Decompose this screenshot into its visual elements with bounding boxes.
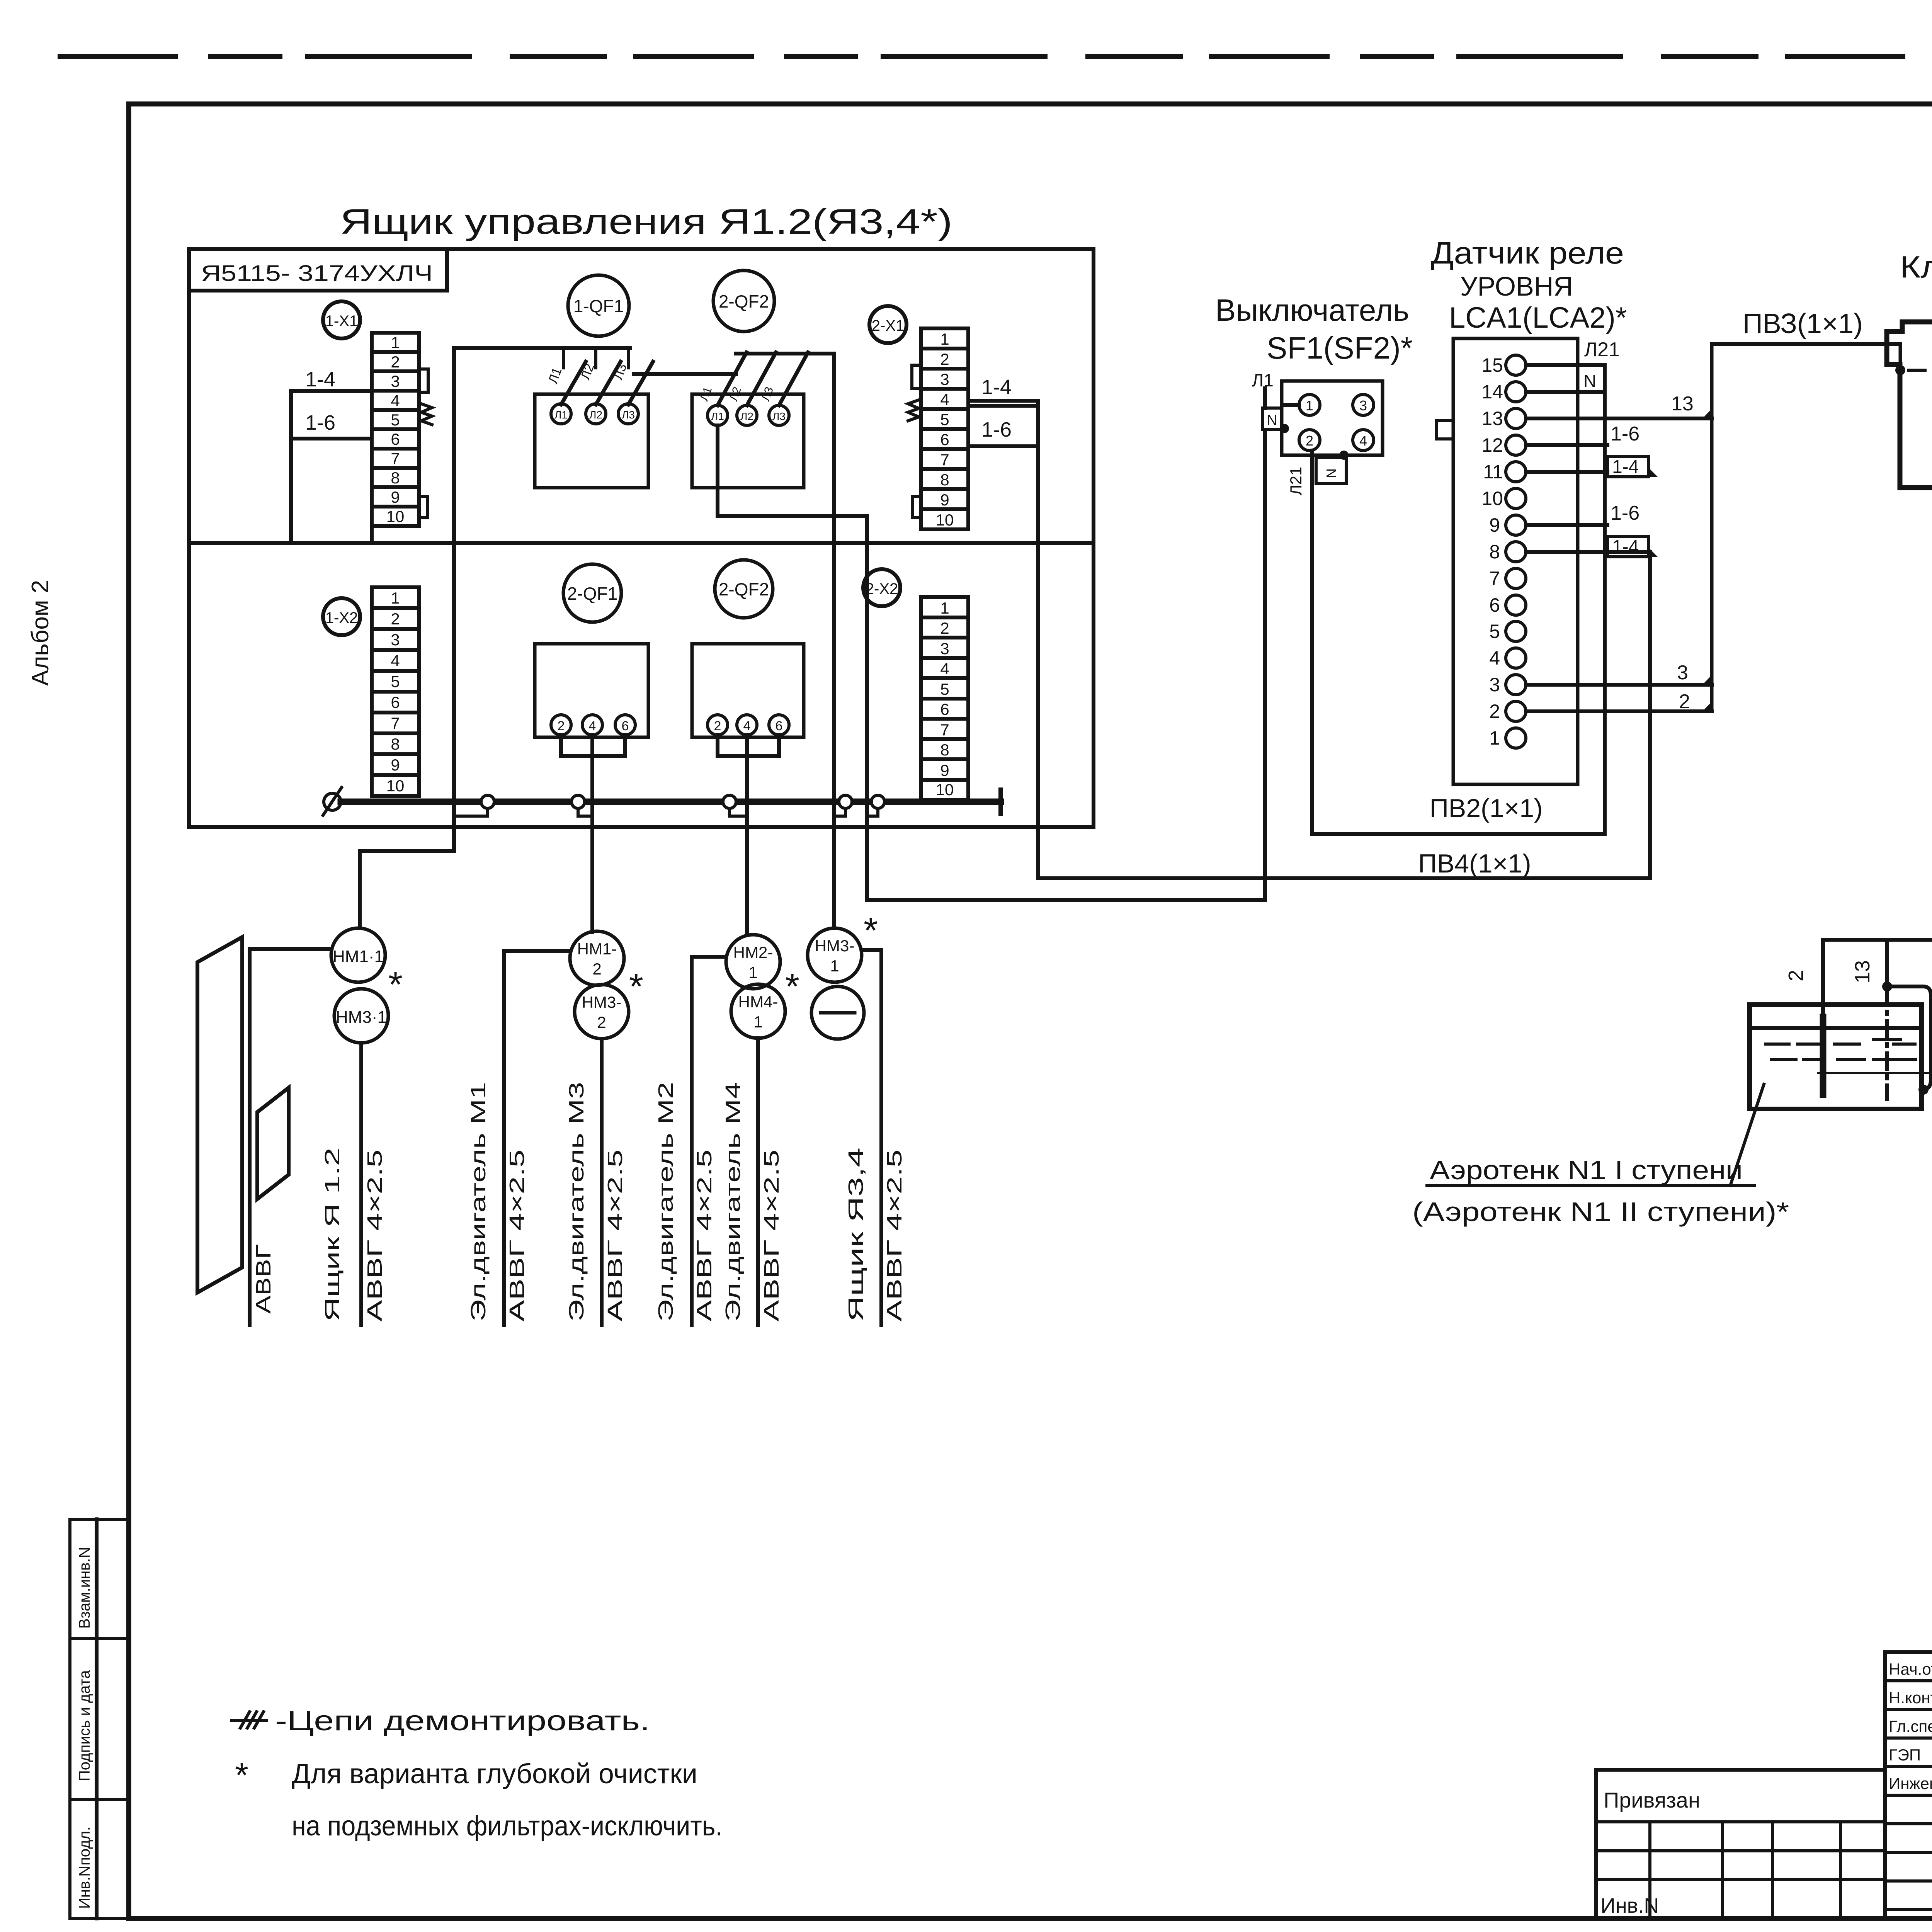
svg-text:6: 6 xyxy=(940,430,949,449)
svg-text:3: 3 xyxy=(940,639,949,658)
bracket wire left of НМ2-1 xyxy=(692,955,726,959)
wire 2-QF2.Л1 output run xyxy=(718,425,1265,900)
SF1 pin 1 xyxy=(1299,395,1320,415)
tank1 cable branch xyxy=(1823,938,1932,942)
svg-text:Л21: Л21 xyxy=(1287,467,1305,495)
control box section divider xyxy=(189,541,1094,545)
cable ПВ3 riser xyxy=(1710,344,1714,711)
svg-text:Гл.спец.: Гл.спец. xyxy=(1889,1717,1932,1735)
2-QF1 terminal 6 xyxy=(615,715,635,735)
terminal block 1-X2 designator circle xyxy=(323,598,360,635)
svg-text:2: 2 xyxy=(391,353,400,371)
cable line Эл.двигатель М1 xyxy=(502,951,506,1325)
svg-text:2-QF2: 2-QF2 xyxy=(719,579,769,599)
svg-text:Н.контр: Н.контр xyxy=(1889,1689,1932,1707)
svg-text:2: 2 xyxy=(391,610,400,628)
svg-text:8: 8 xyxy=(391,735,400,753)
svg-text:8: 8 xyxy=(940,741,949,759)
PE bus xyxy=(341,799,1001,805)
2-QF2 lower terminal 2 xyxy=(707,715,728,735)
feed bus above 1-QF1 xyxy=(454,346,630,350)
svg-text:Клеммная коробка: Клеммная коробка xyxy=(1900,250,1932,284)
flag box 1-4 on wire 11 xyxy=(1607,456,1648,477)
SF1 pin 4 xyxy=(1353,430,1374,451)
svg-text:7: 7 xyxy=(1489,568,1500,589)
svg-text:НМ3-: НМ3- xyxy=(815,937,855,955)
tank1 water line xyxy=(1750,1026,1922,1030)
wire terminal 13 xyxy=(1526,417,1712,420)
wire to НМ1-1 xyxy=(360,851,454,928)
svg-text:5: 5 xyxy=(391,411,400,429)
svg-text:2-X2: 2-X2 xyxy=(866,580,898,597)
motor НМ4-1 paired xyxy=(731,984,785,1038)
2-QF2 terminal Л1 xyxy=(707,405,728,425)
svg-text:10: 10 xyxy=(936,511,954,529)
switch SF1 box xyxy=(1282,381,1383,455)
svg-text:*: * xyxy=(235,1756,248,1795)
svg-text:Инжен.: Инжен. xyxy=(1889,1774,1932,1793)
svg-text:15: 15 xyxy=(1481,354,1503,376)
1-QF1 switch blades xyxy=(561,362,653,405)
svg-text:2: 2 xyxy=(940,619,949,637)
control box outline xyxy=(189,249,1094,827)
svg-text:N: N xyxy=(1323,468,1339,478)
svg-text:1-4: 1-4 xyxy=(305,368,335,391)
junction dot on N wire xyxy=(1280,424,1289,433)
SF1 pin 3 xyxy=(1353,395,1374,415)
breaker box 2-QF1 lower xyxy=(535,644,648,737)
svg-text:5: 5 xyxy=(940,410,949,429)
reserve circle with dash xyxy=(811,986,864,1039)
svg-text:1: 1 xyxy=(1306,398,1313,413)
2-X1 side tabs xyxy=(912,365,921,518)
wire terminal 3 xyxy=(1526,683,1712,687)
sensor terminal numbers xyxy=(1481,354,1503,749)
svg-text:Альбом 2: Альбом 2 xyxy=(27,580,54,686)
svg-text:13: 13 xyxy=(1851,960,1874,983)
cable ПВ2 wire xyxy=(1312,832,1605,836)
1-X1 zigzag contact xyxy=(421,404,432,425)
svg-text:2: 2 xyxy=(597,1013,606,1031)
bus tap circle 1 xyxy=(481,795,494,808)
svg-text:НМ2-: НМ2- xyxy=(733,943,773,961)
svg-text:3: 3 xyxy=(940,370,949,388)
svg-text:7: 7 xyxy=(391,449,400,468)
legend strike symbol xyxy=(232,1719,267,1722)
svg-text:1: 1 xyxy=(830,957,839,975)
level sensor box LCA1 xyxy=(1453,338,1578,784)
svg-text:*: * xyxy=(785,966,799,1007)
svg-text:2: 2 xyxy=(558,719,565,733)
svg-text:Л1: Л1 xyxy=(711,410,724,422)
svg-text:10: 10 xyxy=(1481,488,1503,509)
svg-text:3: 3 xyxy=(1489,674,1500,696)
type label box Я5115-3174УХЛЧ xyxy=(189,249,447,291)
svg-text:4: 4 xyxy=(1489,647,1500,669)
top dashed border line xyxy=(60,54,1932,59)
sensor terminal circles 15..1 xyxy=(1506,355,1526,375)
svg-text:10: 10 xyxy=(386,777,405,795)
svg-text:1: 1 xyxy=(748,963,757,981)
svg-text:Подпись и дата: Подпись и дата xyxy=(76,1670,93,1781)
tank1 electrode 2 wire xyxy=(1821,940,1825,1017)
svg-text:9: 9 xyxy=(391,488,400,506)
breaker designator circle 2-QF1 lower xyxy=(563,564,621,622)
svg-text:Эл.двигатель М3: Эл.двигатель М3 xyxy=(565,1082,588,1321)
terminal box КК1 outline xyxy=(1887,322,1932,501)
svg-text:10: 10 xyxy=(386,507,405,526)
svg-text:1-X1: 1-X1 xyxy=(325,313,358,330)
terminal strip 2-X2 xyxy=(921,597,968,800)
svg-text:Инв.N: Инв.N xyxy=(1600,1894,1659,1917)
motor НМ3-1 second xyxy=(808,928,862,982)
svg-text:ПВ4(1×1): ПВ4(1×1) xyxy=(1418,849,1531,878)
svg-text:2: 2 xyxy=(714,719,721,733)
svg-text:Ящик Я 1.2: Ящик Я 1.2 xyxy=(321,1148,344,1321)
svg-text:Для варианта глубокой очистки: Для варианта глубокой очистки xyxy=(292,1759,697,1789)
2-QF2 feed bus xyxy=(736,352,834,355)
svg-text:2-QF1: 2-QF1 xyxy=(567,583,617,604)
phase taps above 1-QF1 xyxy=(563,348,628,368)
2-QF1 центр wire down to motor НМ1-2 xyxy=(590,735,594,932)
svg-text:АВВГ 4×2.5: АВВГ 4×2.5 xyxy=(505,1150,529,1321)
svg-text:Я5115- 3174УХЛЧ: Я5115- 3174УХЛЧ xyxy=(201,261,433,286)
svg-text:N: N xyxy=(1267,412,1277,429)
tank1 electrode 2 rod xyxy=(1820,1017,1827,1095)
svg-text:-Цепи демонтировать.: -Цепи демонтировать. xyxy=(275,1706,650,1736)
aeration tank 1 xyxy=(1750,1005,1922,1109)
svg-text:Эл.двигатель М2: Эл.двигатель М2 xyxy=(654,1082,677,1321)
1-X1 side tabs xyxy=(419,369,428,518)
svg-text:1-6: 1-6 xyxy=(1611,423,1639,445)
stamp box Взам.инв.№ xyxy=(70,1519,129,1638)
2-QF1 terminal 4 xyxy=(582,715,602,735)
svg-text:Выключатель: Выключатель xyxy=(1215,293,1409,327)
svg-text:2: 2 xyxy=(592,960,601,978)
svg-text:АВВГ 4×2.5: АВВГ 4×2.5 xyxy=(693,1150,716,1321)
wire terminal 8 xyxy=(1526,550,1650,554)
terminal strip 1-X1 xyxy=(372,333,419,526)
svg-text:1-QF1: 1-QF1 xyxy=(573,296,624,316)
svg-text:Эл.двигатель М4: Эл.двигатель М4 xyxy=(721,1082,745,1321)
svg-text:НМ3·1: НМ3·1 xyxy=(336,1008,387,1027)
svg-text:N: N xyxy=(1583,371,1596,391)
svg-text:9: 9 xyxy=(940,491,949,509)
stamp box Инв.№подл. xyxy=(70,1799,129,1918)
svg-text:4: 4 xyxy=(391,391,400,410)
svg-text:АВВГ: АВВГ xyxy=(252,1244,275,1314)
PE dash-dot link xyxy=(1909,369,1932,372)
bracket wire left of НМ1-1 xyxy=(250,947,331,951)
svg-text:1-X2: 1-X2 xyxy=(325,609,358,626)
ПВ3 entry wire down КК1 left side xyxy=(1899,344,1902,488)
svg-text:Аэротенк N1 I ступени: Аэротенк N1 I ступени xyxy=(1430,1155,1743,1185)
wire terminal 8 down to ПВ4 xyxy=(1648,552,1652,878)
wire Л1 into N box xyxy=(1263,388,1267,408)
svg-text:6: 6 xyxy=(1489,594,1500,616)
junction dot under pin 4 xyxy=(1339,451,1349,460)
1-QF1 terminal Л3 xyxy=(618,404,638,424)
terminal strip 1-X2 xyxy=(372,587,419,796)
svg-text:11: 11 xyxy=(1483,461,1503,483)
breaker box 1-QF1 xyxy=(535,394,648,488)
wire terminal 14 to N xyxy=(1526,390,1605,394)
svg-text:АВВГ 4×2.5: АВВГ 4×2.5 xyxy=(604,1150,627,1321)
svg-text:*: * xyxy=(629,966,643,1007)
svg-text:Л2: Л2 xyxy=(589,409,602,421)
svg-text:5: 5 xyxy=(940,680,949,698)
tank1 water dashes xyxy=(1766,1044,1916,1060)
svg-text:Л21: Л21 xyxy=(1584,338,1620,361)
svg-text:Датчик реле: Датчик реле xyxy=(1431,236,1624,270)
bus tap circle 5 xyxy=(871,795,884,808)
svg-text:8: 8 xyxy=(940,471,949,489)
2-X1 zigzag contact xyxy=(908,400,919,421)
breaker box 2-QF2 xyxy=(692,394,804,488)
svg-text:ГЭП: ГЭП xyxy=(1889,1746,1921,1764)
svg-text:Эл.двигатель М1: Эл.двигатель М1 xyxy=(467,1082,490,1321)
svg-text:1: 1 xyxy=(391,589,400,607)
svg-text:9: 9 xyxy=(940,761,949,779)
bus tap circle 2 xyxy=(571,795,585,808)
2-QF2 switch blades xyxy=(718,352,808,405)
terminal block 2-X1 designator circle xyxy=(869,306,906,343)
cable tray parallelogram tall xyxy=(197,937,242,1293)
svg-text:1-4: 1-4 xyxy=(981,376,1012,399)
svg-text:4: 4 xyxy=(391,651,400,670)
wire terminal 2 xyxy=(1526,709,1712,713)
breaker designator circle 2-QF2 xyxy=(713,270,774,332)
terminal strip 2-X1 xyxy=(921,328,968,529)
flag box 1-4 on wire 8 xyxy=(1607,536,1648,557)
svg-text:4: 4 xyxy=(743,719,751,733)
svg-text:4: 4 xyxy=(589,719,596,733)
svg-text:1-6: 1-6 xyxy=(981,418,1012,441)
svg-text:5: 5 xyxy=(1489,621,1500,642)
svg-text:5: 5 xyxy=(391,672,400,690)
svg-text:4: 4 xyxy=(1359,433,1367,449)
PE bus end bar xyxy=(998,790,1003,814)
tab at terminal 13 xyxy=(1437,420,1453,439)
motor НМ3-2 paired xyxy=(575,985,629,1039)
wire from 2-X1 terminal 4 xyxy=(968,399,1038,403)
svg-text:Взам.инв.N: Взам.инв.N xyxy=(76,1547,93,1629)
motor НМ1-2 xyxy=(570,931,624,985)
bus tap circle 3 xyxy=(723,795,736,808)
cable tray parallelogram small xyxy=(257,1088,289,1199)
svg-text:Нач.отд: Нач.отд xyxy=(1889,1660,1932,1678)
cable line Ящик Я3,4 xyxy=(879,950,883,1325)
tank1 electrode 13 rod dash-dot xyxy=(1885,989,1889,1099)
cable ПВ4 wire xyxy=(1038,876,1650,880)
svg-text:1: 1 xyxy=(1489,727,1500,749)
svg-text:Л3: Л3 xyxy=(772,410,786,422)
cable line Эл.двигатель М3 xyxy=(600,1039,604,1325)
svg-text:ПВ2(1×1): ПВ2(1×1) xyxy=(1430,794,1543,823)
SF1 pin 2 xyxy=(1299,430,1320,451)
1-QF1 terminal Л1 xyxy=(551,404,571,424)
svg-text:2: 2 xyxy=(940,350,949,368)
flag triangle on wire 3 xyxy=(1702,675,1712,685)
svg-text:Л1: Л1 xyxy=(1252,370,1274,390)
svg-text:13: 13 xyxy=(1481,408,1503,429)
terminal block 2-X2 designator circle xyxy=(863,569,900,606)
svg-text:1-4: 1-4 xyxy=(1612,537,1639,557)
bus tap circle 4 xyxy=(839,795,852,808)
svg-text:НМ1·1: НМ1·1 xyxy=(333,947,384,966)
svg-text:2: 2 xyxy=(1489,701,1500,722)
svg-text:Привязан: Привязан xyxy=(1604,1788,1700,1812)
svg-text:1-6: 1-6 xyxy=(1611,502,1639,524)
svg-text:2-X1: 2-X1 xyxy=(872,317,905,334)
junction dot 13 tank1 xyxy=(1882,981,1892,992)
cable line Эл.двигатель М4 xyxy=(756,1038,760,1325)
svg-text:3: 3 xyxy=(1359,398,1367,413)
svg-text:1: 1 xyxy=(940,330,949,348)
svg-text:4: 4 xyxy=(940,660,949,678)
svg-text:2: 2 xyxy=(1679,690,1690,713)
wire 2-QF2 feed down to НМ3-1 group xyxy=(832,354,836,928)
svg-text:Ящик Я3,4: Ящик Я3,4 xyxy=(844,1148,867,1321)
breaker designator circle 1-QF1 xyxy=(568,275,629,336)
tank1 electrode tick marks xyxy=(1874,1039,1901,1060)
1-QF1 terminal Л2 xyxy=(586,404,606,424)
svg-text:Инв.Nподл.: Инв.Nподл. xyxy=(76,1827,93,1909)
svg-text:6: 6 xyxy=(940,700,949,718)
svg-text:Л1: Л1 xyxy=(554,409,568,421)
motor НМ2-1 xyxy=(726,935,780,989)
svg-text:(Аэротенк N1 II ступени)*: (Аэротенк N1 II ступени)* xyxy=(1412,1197,1789,1227)
svg-text:2-QF2: 2-QF2 xyxy=(719,291,769,311)
svg-text:7: 7 xyxy=(391,714,400,732)
2-QF1 terminal 2 xyxy=(551,715,571,735)
bracket wire left of НМ1-2 xyxy=(504,949,570,953)
svg-text:3: 3 xyxy=(391,631,400,649)
svg-text:НМ1-: НМ1- xyxy=(577,940,617,958)
motor НМ1-1 xyxy=(331,928,385,982)
svg-text:12: 12 xyxy=(1481,434,1503,456)
flag triangle on wire 13 xyxy=(1702,409,1712,418)
binding table Привязан xyxy=(1596,1770,1885,1918)
1-6 box right of 2-X1 xyxy=(968,406,1038,446)
SF1 neutral wire down xyxy=(1263,430,1267,900)
svg-text:1-4: 1-4 xyxy=(1612,457,1639,477)
tank1 electrode 13 wire xyxy=(1885,940,1889,986)
2-QF2 terminal Л3 xyxy=(769,405,789,425)
wire terminal 15 to Л21 xyxy=(1526,363,1605,367)
wire terminal 12 xyxy=(1526,443,1607,447)
svg-text:АВВГ 4×2.5: АВВГ 4×2.5 xyxy=(363,1150,386,1321)
svg-text:2: 2 xyxy=(1306,433,1313,449)
svg-text:6: 6 xyxy=(391,693,400,711)
svg-text:Л2: Л2 xyxy=(740,410,753,422)
link wire between breaker feeds xyxy=(634,372,736,376)
svg-text:НМ3-: НМ3- xyxy=(582,993,622,1011)
tank1 leader line xyxy=(1730,1084,1764,1185)
svg-text:ПВЗ(1×1): ПВЗ(1×1) xyxy=(1743,308,1863,339)
wire pin1 to N xyxy=(1282,403,1299,407)
svg-text:13: 13 xyxy=(1671,393,1694,415)
svg-text:АВВГ 4×2.5: АВВГ 4×2.5 xyxy=(760,1150,783,1321)
motor НМ3-1 paired xyxy=(334,989,388,1043)
svg-text:9: 9 xyxy=(391,756,400,774)
svg-text:3: 3 xyxy=(1677,662,1688,684)
wire 1-6 down to ПВ4 xyxy=(1036,401,1040,878)
svg-text:7: 7 xyxy=(940,451,949,469)
2-QF2 lower terminal 4 xyxy=(737,715,757,735)
svg-text:8: 8 xyxy=(391,469,400,487)
2-QF2 lower output jumper xyxy=(718,735,779,756)
svg-text:6: 6 xyxy=(391,430,400,448)
2-QF1 output jumper xyxy=(561,735,625,756)
cable line Эл.двигатель М2 xyxy=(690,957,694,1325)
N box under SF1 xyxy=(1316,457,1346,483)
svg-text:SF1(SF2)*: SF1(SF2)* xyxy=(1267,331,1413,365)
svg-text:1: 1 xyxy=(940,599,949,617)
svg-text:на подземных фильтрах-исключит: на подземных фильтрах-исключить. xyxy=(292,1811,723,1842)
svg-text:3: 3 xyxy=(391,372,400,390)
signature table xyxy=(1885,1652,1932,1918)
wire terminal 9 xyxy=(1526,523,1607,527)
svg-text:1: 1 xyxy=(391,333,400,352)
svg-text:АВВГ 4×2.5: АВВГ 4×2.5 xyxy=(883,1150,906,1321)
flag triangle on wire 2 xyxy=(1702,702,1712,711)
svg-text:НМ4-: НМ4- xyxy=(738,993,778,1011)
svg-text:*: * xyxy=(388,964,403,1005)
stamp box Подпись и дата xyxy=(70,1638,129,1799)
svg-text:8: 8 xyxy=(1489,541,1500,563)
SF1 pin2 wire down xyxy=(1310,451,1314,834)
svg-text:9: 9 xyxy=(1489,514,1500,536)
cable line Ящик Я1.2 xyxy=(359,1043,363,1325)
terminal block 1-X1 designator circle xyxy=(323,301,360,338)
feed wire vertical into box xyxy=(452,348,456,851)
breaker designator circle 2-QF2 lower xyxy=(715,560,773,618)
svg-text:1-6: 1-6 xyxy=(305,411,335,434)
svg-text:10: 10 xyxy=(936,781,954,799)
svg-text:7: 7 xyxy=(940,721,949,739)
svg-text:LCA1(LCA2)*: LCA1(LCA2)* xyxy=(1449,301,1627,334)
svg-text:Ящик управления Я1.2(Я3,4*): Ящик управления Я1.2(Я3,4*) xyxy=(340,202,952,241)
connector shell left of 1-X1 with 1-6 cell xyxy=(291,391,372,543)
svg-text:*: * xyxy=(864,910,878,951)
2-QF2 terminal Л2 xyxy=(737,405,757,425)
2-QF2 lower centre wire down to НМ2-1 xyxy=(745,735,749,935)
bracket wire right of НМ3-1 second xyxy=(862,948,881,952)
breaker box 2-QF2 lower xyxy=(692,644,804,737)
svg-text:6: 6 xyxy=(776,719,783,733)
junction dot ПВ3 xyxy=(1895,365,1905,375)
svg-text:Л3: Л3 xyxy=(622,409,635,421)
PE bus phi symbol xyxy=(324,793,341,810)
emergency level line xyxy=(1818,1072,1932,1074)
wire terminal 11 xyxy=(1526,470,1607,474)
cable ПВ3 horizontal run xyxy=(1712,342,1900,346)
cable line АВВГ xyxy=(248,949,252,1325)
tank1 label underline xyxy=(1427,1184,1754,1187)
tank1 shell bond wire xyxy=(1887,986,1931,1089)
svg-text:1: 1 xyxy=(753,1013,762,1031)
svg-text:4: 4 xyxy=(940,390,949,408)
vertical Л21 wire xyxy=(1603,365,1607,834)
svg-text:УРОВНЯ: УРОВНЯ xyxy=(1460,271,1573,301)
2-QF2 lower terminal 6 xyxy=(769,715,789,735)
N box left of SF1 xyxy=(1262,408,1282,430)
svg-text:2: 2 xyxy=(1784,970,1808,981)
svg-text:6: 6 xyxy=(622,719,629,733)
svg-text:14: 14 xyxy=(1481,381,1503,403)
